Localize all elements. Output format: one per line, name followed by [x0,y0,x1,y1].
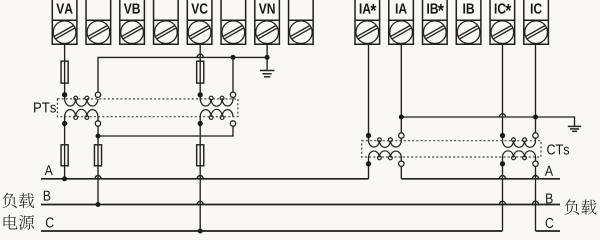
hop bus A over IC wire [532,175,538,179]
terminal spare 8 [289,0,314,44]
terminal IA* [355,0,380,44]
hop ground rail over IC* [499,114,505,118]
wire PT2 primary right riser [232,57,234,99]
hop bus B over C wire [197,201,203,205]
wire VA terminal to fuse F1 [64,44,66,99]
wire VN rail [98,57,267,94]
CT2 bottom right terminal [533,161,538,166]
node A right [545,166,553,176]
wire IC* drop [502,44,504,141]
ground rail [401,117,574,126]
label 负载 right [564,199,596,214]
node C left [46,217,54,227]
label PTs [34,103,56,113]
PT1 secondary right terminal [95,121,100,126]
CT1 top polarity dot [366,133,371,138]
wire CT2 bottom right to bus C [535,157,537,231]
junction bus B [96,202,101,207]
CT1 bottom polarity dot [366,161,371,166]
bus C left segment [41,230,503,232]
fuse F5 [197,145,204,166]
wire VN terminal drop [266,44,268,70]
CTs dashed box [362,141,541,157]
PT1 primary winding [65,96,98,106]
CT2 top right terminal [533,133,538,138]
node A left [45,165,53,175]
wire IC drop [535,44,537,141]
terminal IA [389,0,414,44]
junction PT2-VN rail [231,55,236,60]
fuse F3 [61,145,68,166]
terminal VB [120,0,145,44]
CT1 bottom right terminal [399,161,404,166]
CT2 bottom polarity dot [500,161,505,166]
CT2 secondary winding [503,138,536,147]
PT2 secondary winding [200,109,233,119]
hop bus A over IC* wire [499,175,505,179]
junction VA bus A [62,176,67,181]
PT secondary common rail [98,126,233,136]
label 电源 left [4,215,35,230]
CT1 secondary winding [369,138,402,147]
wire CT2 bottom left to bus C [502,157,504,231]
PT1 secondary winding [65,109,98,119]
CT2 primary winding [503,151,536,160]
bus A right segment [401,178,560,180]
terminal spare 4 [154,0,179,44]
PT1 primary polarity dot [62,92,67,97]
fuse F2 [197,61,204,83]
label 负载 left [2,193,34,208]
PT1 secondary left dot [62,121,67,126]
hop bus A over B wire [95,175,101,179]
wire PT2 secondary left to fuse F5 [199,117,201,231]
terminal IB [456,0,481,44]
hop bus B over IC wire [532,201,538,205]
bus B [41,204,560,206]
junction secondary rail [96,134,101,139]
wire VC terminal to fuse F2 [199,44,201,99]
PT2 primary polarity dot [198,92,203,97]
terminal IC [524,0,549,44]
terminal spare 2 [86,0,111,44]
terminal IB* [423,0,448,44]
wire CT1 bottom right to bus A [400,157,402,179]
PT2 secondary left dot [198,121,203,126]
junction IC ground rail [533,115,538,120]
hop bus B over IC* wire [499,201,505,205]
PT1 primary right terminal [95,92,100,97]
terminal VC [187,0,212,44]
junction IA ground rail [399,115,404,120]
node B left [44,191,51,201]
wire IA drop [400,44,402,141]
bus A left segment [41,178,369,180]
ground at VN [260,71,275,77]
CT2 top polarity dot [500,133,505,138]
wire PT1 secondary right drop [97,117,99,205]
PT2 primary winding [200,96,233,106]
node C right [546,218,554,228]
junction bus C [198,229,203,234]
terminal VN [255,0,280,44]
junction VN rail [265,55,270,60]
CT1 primary winding [369,151,402,160]
ground at CT rail [568,126,581,131]
wire IA* drop [368,44,370,141]
PT2 primary right terminal [230,92,235,97]
bus C right segment [536,230,561,232]
CT1 top right terminal [399,133,404,138]
terminal VA [52,0,77,44]
label CTs [547,144,569,154]
hop rail over VC wire [197,54,203,58]
PT2 secondary right terminal [230,121,235,126]
fuse F1 [61,61,68,83]
fuse F4 [94,145,101,166]
terminal IC* [490,0,515,44]
wire CT1 bottom left to bus A [368,157,370,179]
PTs dashed box [57,99,238,117]
node B right [546,193,553,203]
hop bus A over C wire [197,175,203,179]
terminal spare 6 [221,0,246,44]
wire PT1 secondary left to fuse F3 [64,117,66,179]
